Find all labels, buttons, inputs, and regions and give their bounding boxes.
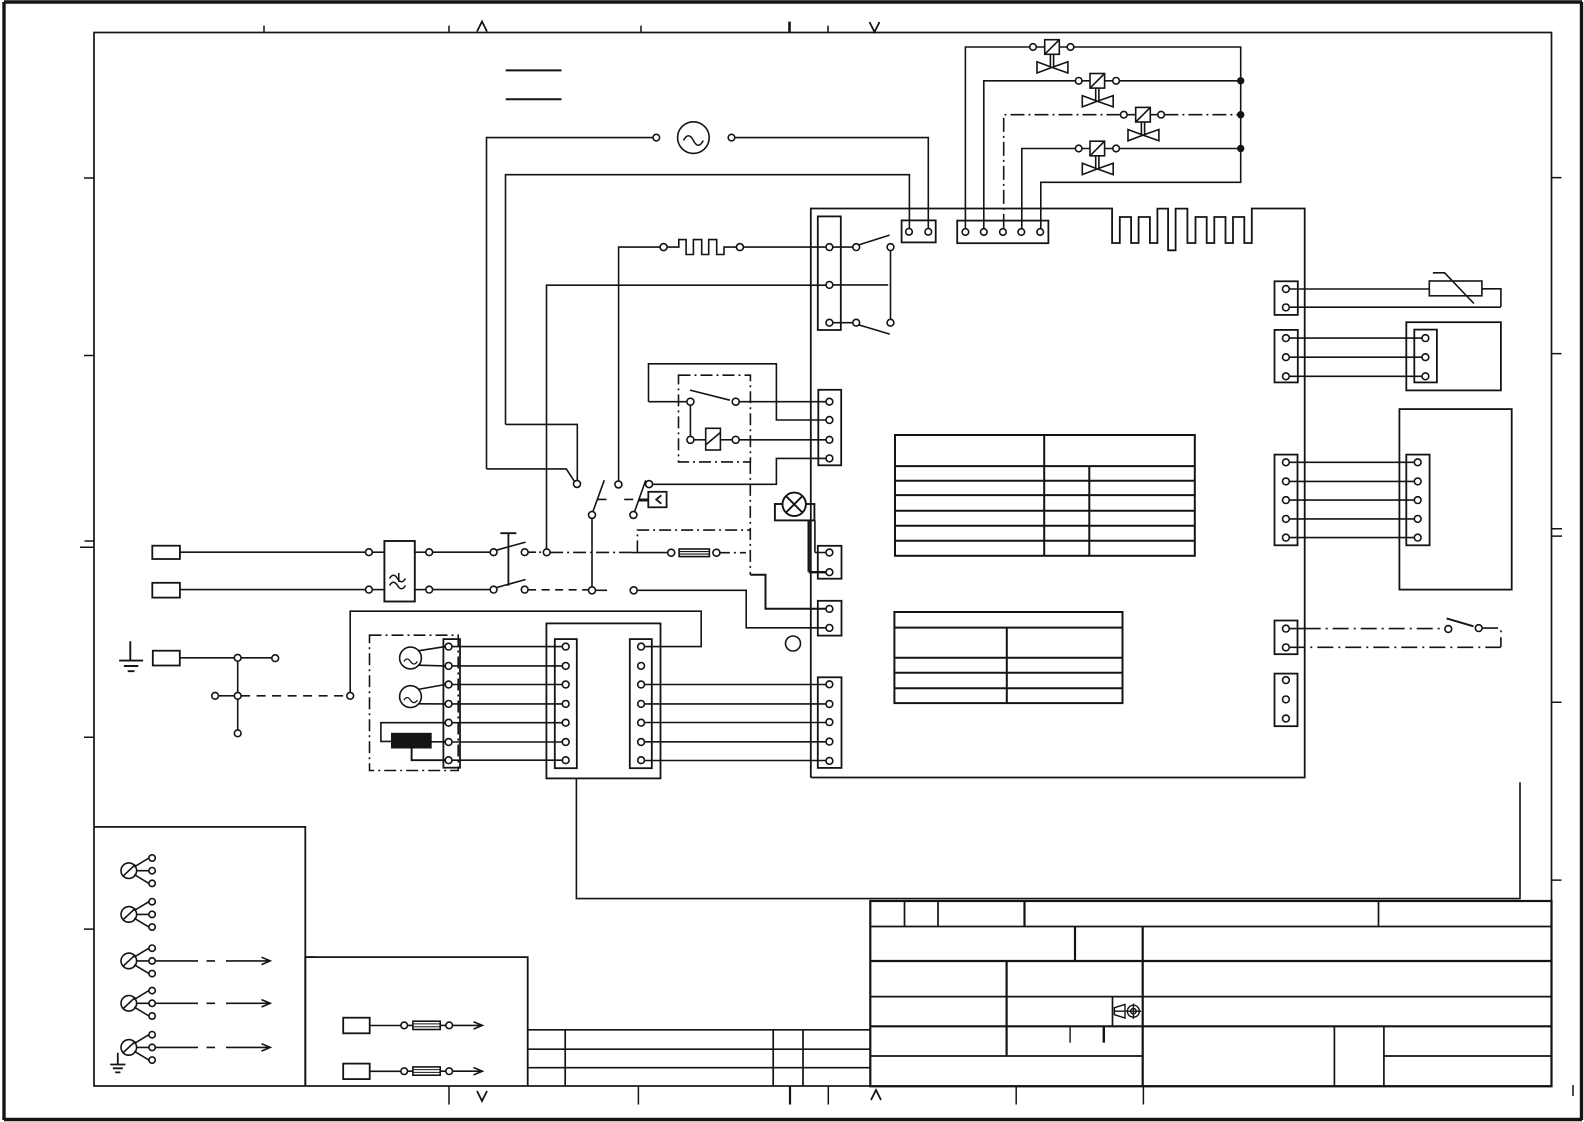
- ground symbol earth: [119, 641, 143, 671]
- mech link dashed: [598, 498, 639, 500]
- connector X9 3pin: [1275, 330, 1298, 383]
- legend table T1: [895, 435, 1195, 556]
- node: [426, 549, 433, 556]
- wire: [237, 661, 239, 692]
- wire: [237, 699, 239, 730]
- accessory box 1: [94, 827, 305, 1086]
- wire filter out L: [415, 551, 426, 553]
- display unit box: [1406, 322, 1501, 390]
- arrow F3: [453, 1068, 483, 1075]
- relay K1 enclosure: [679, 375, 751, 462]
- wire: [372, 551, 384, 553]
- wire N to filter: [180, 589, 366, 591]
- wire dashed N out: [528, 589, 588, 591]
- fuse F3: [370, 1067, 453, 1075]
- thermal cutout bracket dash-dot: [637, 530, 750, 552]
- lamp H1: [775, 493, 815, 521]
- terminal block X1: [902, 220, 936, 242]
- wire loop 2: [506, 175, 910, 425]
- wire dash-dot: [528, 551, 543, 553]
- connector X5 2pin lamp: [818, 546, 842, 579]
- plug P7: [343, 1064, 370, 1080]
- wire to switch S3: [506, 424, 578, 480]
- valve Y4: [1075, 141, 1119, 174]
- junction dot: [1238, 112, 1244, 118]
- switch S1a main: [490, 542, 528, 556]
- plug P6: [343, 1018, 370, 1034]
- ptc R3: [381, 723, 445, 761]
- wire N to pcb: [637, 590, 826, 628]
- terminal block X2: [957, 221, 1048, 244]
- fuse F2: [370, 1021, 453, 1029]
- legend reference lines: [506, 70, 562, 99]
- wires X15 to X16: [452, 647, 562, 761]
- wires X17 to pcb: [645, 685, 827, 761]
- wire: [632, 552, 668, 554]
- thermistor R2: [1429, 273, 1482, 304]
- relay K1 link: [689, 405, 691, 436]
- switch S1b main: [490, 580, 528, 593]
- connector X14 3pin spare: [1275, 674, 1298, 727]
- valve Y1: [1030, 40, 1074, 73]
- wire: [241, 657, 272, 659]
- mech link dash-dot relay to fuse: [749, 462, 751, 575]
- arrow P5: [155, 1044, 270, 1051]
- node E2: [272, 655, 279, 662]
- wire: [219, 695, 235, 697]
- projection symbol: [1114, 1004, 1141, 1019]
- wire dash-dot to door switch: [1289, 628, 1445, 630]
- connector X12 5pin: [1406, 455, 1429, 546]
- link bar thick: [639, 499, 649, 502]
- wire shield loop: [576, 778, 1520, 898]
- switch S3 contact: [487, 469, 581, 488]
- plug P5: [121, 1032, 155, 1064]
- motor M1 compressor: [653, 122, 735, 154]
- door switch S4: [589, 587, 638, 594]
- arrow P3: [155, 957, 270, 964]
- node: [366, 586, 373, 593]
- wire Y3 right dash-dot: [1164, 114, 1240, 116]
- relay K1 outer wire: [649, 364, 827, 420]
- node E4: [212, 692, 219, 699]
- node circle: [786, 636, 801, 651]
- wire to thermistor: [1289, 288, 1429, 290]
- connector strip X16: [555, 639, 577, 768]
- relay K1 contact: [649, 390, 827, 405]
- wire: [433, 589, 491, 591]
- plug P2: [121, 899, 155, 931]
- terminal L: [152, 546, 180, 559]
- fuse F1: [668, 549, 720, 557]
- heater R1 defrost: [660, 240, 743, 255]
- valve Y2: [1075, 74, 1119, 107]
- wire: [433, 551, 491, 553]
- wire Y1 right bus: [1041, 47, 1241, 229]
- switch S1 link bar: [500, 533, 516, 586]
- title block ticks: [1069, 1027, 1071, 1043]
- PCB A1 outline with comb: [811, 209, 1305, 778]
- node E3: [234, 692, 241, 699]
- node E1: [234, 654, 241, 661]
- connector strip X17: [630, 639, 652, 768]
- terminal E: [153, 651, 180, 666]
- node: [366, 549, 373, 556]
- plug P1: [121, 855, 155, 887]
- defrost switch S2a: [589, 480, 622, 518]
- wire heater left drop: [619, 247, 661, 481]
- connector strip X15: [443, 639, 460, 768]
- wire Y4 left: [1022, 149, 1076, 229]
- arrow F2: [453, 1022, 483, 1029]
- wire thermistor return: [1289, 289, 1501, 307]
- junction dot: [1238, 146, 1244, 152]
- motor M2 fan: [400, 647, 446, 669]
- wire dashed: [241, 695, 347, 697]
- connector X6 2pin: [818, 601, 842, 636]
- accessory box 2: [305, 957, 527, 1086]
- arrow P4: [155, 1000, 270, 1007]
- connector X7 5pin: [818, 677, 842, 768]
- plug P4: [121, 987, 155, 1019]
- node: [426, 586, 433, 593]
- node E6: [234, 730, 241, 737]
- motor enclosure dash-dot: [370, 635, 459, 770]
- wire dash-dot fuse out: [720, 552, 746, 554]
- wire S2a to N node: [591, 518, 593, 586]
- door switch S6: [1445, 618, 1482, 632]
- connector X8 2pin: [1275, 281, 1298, 315]
- wire Y2 left: [984, 81, 1076, 229]
- changeover switch S5: [833, 235, 894, 334]
- wire Y4 right: [1119, 148, 1240, 150]
- wire L loop top: [487, 138, 929, 469]
- sensor box B1: [648, 492, 666, 508]
- motor M3 fan: [400, 685, 446, 708]
- ground symbol P5: [110, 1053, 125, 1073]
- wire heater to pin: [743, 246, 826, 248]
- junction dot: [1238, 78, 1244, 84]
- wire Y3 left dash-dot: [1004, 115, 1121, 229]
- connector X13 2pin: [1275, 621, 1298, 655]
- filter Z1: [384, 541, 414, 602]
- wire dash-dot to fuse: [550, 551, 632, 553]
- wire fuse to pcb pin: [750, 575, 826, 609]
- wire ground loop: [350, 611, 701, 692]
- wire S1 output to pin2: [547, 285, 827, 549]
- wire S2b to relay loop: [653, 458, 827, 484]
- wires X9-X10: [1289, 338, 1422, 376]
- control unit box: [1399, 409, 1511, 589]
- connector X4 4pin: [818, 390, 841, 466]
- node S1 out: [543, 549, 550, 556]
- node E5: [347, 692, 354, 699]
- terminal N: [152, 583, 180, 598]
- lamp wire thin: [815, 520, 826, 552]
- wire dash-dot return: [1289, 628, 1501, 647]
- relay K1 coil: [687, 428, 826, 450]
- junction box: [546, 623, 660, 778]
- wire filter out N: [415, 589, 426, 591]
- revision table: [528, 1030, 871, 1086]
- wire L to filter: [180, 551, 366, 553]
- wire Y1 left: [965, 47, 1029, 229]
- valve Y3: [1121, 107, 1165, 140]
- connector X10 3pin: [1414, 330, 1437, 383]
- wire Y2 right: [1119, 80, 1240, 82]
- wire: [372, 589, 384, 591]
- connector X11 5pin: [1275, 455, 1298, 546]
- lamp wire thick: [809, 520, 826, 572]
- wires X11-X12: [1289, 462, 1414, 537]
- legend table T2: [894, 612, 1122, 703]
- defrost switch S2b: [630, 480, 653, 518]
- wire E: [180, 657, 235, 659]
- plug P3: [121, 945, 155, 977]
- connector X3 3pin: [818, 216, 841, 330]
- title block: [870, 901, 1551, 1086]
